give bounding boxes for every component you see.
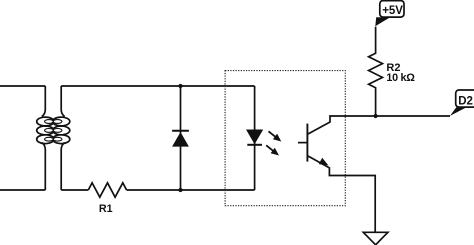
wire: R1 to LED bottom	[127, 189, 255, 191]
optocoupler dashed box	[225, 71, 345, 206]
flyback diode triangle	[172, 132, 189, 147]
node: R2/collector/D2 junction	[374, 114, 378, 118]
svg-text:10 kΩ: 10 kΩ	[386, 72, 415, 84]
wire: left circuit bottom lead (cropped at left edge)	[0, 189, 45, 191]
phototransistor emitter arrow	[319, 158, 329, 166]
phototransistor base bar	[306, 124, 308, 162]
+5V flag tail	[375, 17, 390, 26]
phototransistor collector + wire to D2	[308, 116, 450, 134]
optocoupler LED branch wire	[254, 86, 256, 190]
D2 net flag box	[456, 90, 474, 107]
svg-text:+5V: +5V	[382, 5, 403, 17]
flyback diode branch wire	[180, 86, 182, 190]
resistor R1	[88, 183, 126, 197]
wire: top rail from coil to LED	[61, 85, 254, 87]
node: diode top junction	[178, 84, 182, 88]
optocoupler LED triangle	[246, 130, 263, 145]
phototransistor base stub	[298, 142, 307, 144]
flyback diode cathode bar	[172, 130, 189, 132]
svg-text:R1: R1	[99, 203, 113, 215]
svg-text:D2: D2	[458, 95, 473, 107]
LED cathode bar	[247, 144, 262, 146]
wire: bottom rail from coil to R1	[61, 189, 88, 191]
relay coil winding loops	[37, 117, 70, 126]
ground symbol	[363, 232, 388, 245]
LED light arrow lower	[266, 145, 279, 155]
wire: left circuit top lead (cropped at left edge)	[0, 85, 45, 87]
D2 flag tail	[450, 107, 466, 116]
LED light arrow upper	[269, 131, 282, 141]
node: diode bottom junction	[178, 188, 182, 192]
+5V supply flag box	[380, 1, 404, 18]
resistor R2	[369, 27, 383, 116]
relay coil rails with flares	[42, 86, 46, 117]
phototransistor emitter + wire to ground	[308, 156, 375, 232]
